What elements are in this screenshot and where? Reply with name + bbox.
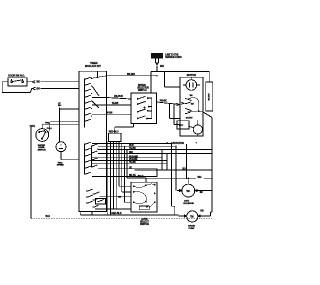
svg-text:PUR-WH: PUR-WH <box>129 156 138 158</box>
svg-text:PUR: PUR <box>129 145 134 147</box>
svg-text:YE-BK: YE-BK <box>112 103 119 105</box>
svg-text:RED-BLK: RED-BLK <box>111 212 121 215</box>
svg-text:YE-BK: YE-BK <box>129 162 136 164</box>
svg-text:+: + <box>196 143 198 145</box>
svg-text:BU: BU <box>183 168 187 170</box>
svg-text:TM: TM <box>186 190 189 193</box>
svg-text:DOOR SW. N.O.: DOOR SW. N.O. <box>8 75 25 78</box>
svg-text:PR-BK: PR-BK <box>160 101 167 103</box>
svg-text:OVFL: OVFL <box>30 126 36 128</box>
svg-text:PUR-BK: PUR-BK <box>129 159 138 161</box>
svg-text:CAPACITOR: CAPACITOR <box>171 142 184 145</box>
svg-text:BU.: BU. <box>58 105 62 107</box>
svg-text:SWITCH: SWITCH <box>38 150 47 152</box>
svg-text:START: START <box>186 117 193 120</box>
svg-text:1M: 1M <box>118 196 121 198</box>
svg-text:BK-WH: BK-WH <box>127 73 135 76</box>
svg-text:BU: BU <box>37 87 41 90</box>
svg-text:RED-BLU: RED-BLU <box>109 131 119 133</box>
svg-text:4M: 4M <box>200 191 203 194</box>
svg-text:BLK: BLK <box>46 216 51 218</box>
svg-text:SPEED: SPEED <box>57 165 64 167</box>
svg-text:YE-BK: YE-BK <box>129 148 136 150</box>
svg-text:TM: TM <box>190 215 193 218</box>
svg-text:BK-YE: BK-YE <box>129 175 136 177</box>
svg-text:WH: WH <box>160 65 164 68</box>
svg-text:SERVICE CORD: SERVICE CORD <box>165 57 182 59</box>
svg-text:PTC: PTC <box>179 125 184 127</box>
svg-text:5M: 5M <box>191 104 194 106</box>
svg-text:PUMP: PUMP <box>189 228 196 230</box>
svg-text:WH: WH <box>198 177 202 179</box>
svg-text:2M: 2M <box>190 95 193 97</box>
svg-text:SOLENOID: SOLENOID <box>183 203 194 205</box>
svg-text:FULL: FULL <box>47 128 53 130</box>
svg-text:WH: WH <box>129 152 133 154</box>
svg-text:SWITCH: SWITCH <box>138 90 147 92</box>
svg-text:SWITCH: SWITCH <box>140 223 149 226</box>
svg-text:W-GN: W-GN <box>106 113 112 115</box>
svg-text:MOTOR: MOTOR <box>187 73 196 77</box>
svg-text:MOD-XXX KIT: MOD-XXX KIT <box>85 64 101 68</box>
svg-text:BK-PUR: BK-PUR <box>114 96 123 98</box>
svg-text:BK-R: BK-R <box>138 176 144 178</box>
svg-text:BK: BK <box>37 81 41 84</box>
svg-text:GN: GN <box>200 211 204 213</box>
svg-text:BK-WH: BK-WH <box>209 93 211 101</box>
